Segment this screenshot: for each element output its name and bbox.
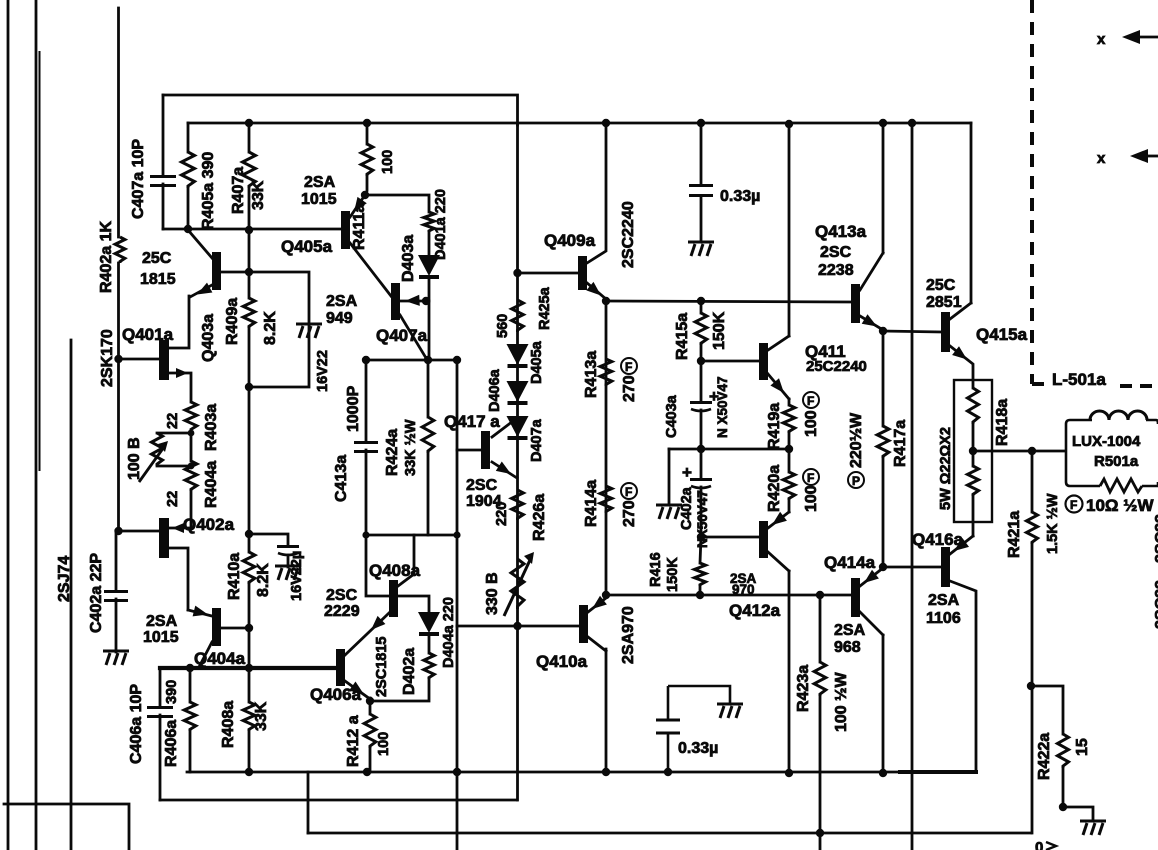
transistor Q405a bar	[341, 211, 350, 249]
wire R421a top	[1031, 451, 1034, 512]
svg-text:C413a: C413a	[333, 455, 350, 502]
svg-text:2SA: 2SA	[304, 174, 336, 191]
wire Q411 collector diag	[768, 336, 789, 350]
junction node (118.5,359)	[114, 355, 122, 363]
wire bias column R407a to R409a	[248, 188, 251, 298]
svg-text:R407a: R407a	[230, 167, 247, 214]
wire R404a to Q402a source	[169, 491, 191, 528]
emitter arrow Q409a	[586, 282, 601, 296]
transistor Q411 bar	[759, 343, 768, 380]
svg-text:2SA: 2SA	[834, 622, 866, 639]
wire 0.33u top cap stub	[700, 123, 703, 184]
wire Q410a collector diag	[588, 637, 606, 651]
wire D403a bottom to emitter node	[428, 278, 431, 360]
wire Q404a emitter diag	[188, 610, 212, 616]
svg-text:949: 949	[326, 310, 353, 327]
wire R405a bottom stub	[187, 188, 190, 229]
wire R420a bottom	[788, 500, 791, 512]
transistor Q402a bar	[159, 518, 169, 558]
resistor R416 150K	[694, 563, 705, 586]
wire left bus 2	[35, 0, 38, 850]
svg-text:Q408a: Q408a	[369, 561, 421, 580]
ground R422a	[1080, 821, 1106, 835]
wire Q412a base	[701, 536, 759, 539]
transistor Q406a bar	[336, 649, 345, 686]
wire C413a column top	[365, 360, 368, 441]
svg-text:22: 22	[165, 491, 181, 507]
wire R403a-R404a mid	[190, 431, 193, 461]
wire R423a column top	[819, 595, 822, 662]
resistor R421a 1.5K	[1026, 512, 1037, 544]
junction node (190,668)	[186, 664, 194, 672]
svg-text:R402a 1K: R402a 1K	[98, 221, 115, 293]
svg-text:R410a: R410a	[226, 553, 243, 600]
svg-text:Q410a: Q410a	[536, 652, 588, 671]
svg-text:2SC2240: 2SC2240	[620, 201, 637, 268]
svg-text:P: P	[852, 474, 860, 488]
resistor D404a 220	[424, 653, 434, 679]
junction node (701,123)	[697, 119, 705, 127]
transistor Q417a bar	[481, 431, 490, 469]
wire gnd bracket C403a	[669, 448, 701, 451]
svg-text:1815: 1815	[140, 271, 176, 288]
svg-text:D406a: D406a	[487, 368, 503, 412]
ground C403a bracket	[656, 505, 682, 519]
svg-text:Q403a: Q403a	[200, 314, 217, 362]
svg-text:2SA: 2SA	[326, 293, 358, 310]
wire C406a top stub	[159, 668, 162, 706]
emitter arrow Q417a	[496, 462, 511, 475]
wire bias column x=249 top	[248, 123, 251, 152]
svg-text:+: +	[682, 463, 692, 482]
svg-text:25C2240: 25C2240	[806, 358, 867, 375]
wire R418a bottom exit	[972, 496, 975, 536]
svg-text:2SA970: 2SA970	[620, 606, 637, 664]
svg-text:100: 100	[803, 485, 820, 512]
junction node (249,668)	[245, 664, 253, 672]
wire D404a to 220	[428, 635, 431, 653]
resistor R418a lower 0.22	[967, 466, 978, 496]
resistor R403a 22	[185, 402, 197, 431]
junction node (366,360)	[362, 356, 370, 364]
svg-text:F: F	[625, 360, 632, 374]
svg-text:R416: R416	[648, 552, 664, 587]
resistor D401a 220	[424, 212, 434, 232]
capacitor 16V22u	[277, 547, 299, 556]
wire Q415a emitter diag	[950, 346, 973, 388]
circled F R420a	[803, 469, 819, 485]
svg-text:L-501a: L-501a	[1052, 370, 1106, 389]
wire x883 top column	[882, 123, 885, 253]
svg-text:560: 560	[495, 314, 511, 338]
junction node (883,331)	[879, 327, 887, 335]
emitter arrow Q407a	[405, 295, 420, 306]
wire Q417a emitter diag	[492, 462, 517, 478]
junction node (517.5,273)	[513, 269, 521, 277]
wire 0.33u top cap to gnd	[700, 196, 703, 242]
svg-text:R405a 390: R405a 390	[200, 152, 217, 230]
svg-text:F: F	[625, 485, 632, 499]
svg-text:1106: 1106	[926, 610, 961, 627]
wire y332 line Q415a base	[883, 331, 941, 332]
diode D405a	[507, 344, 529, 366]
emitter arrow Q403a	[197, 283, 212, 295]
svg-text:C403a: C403a	[664, 394, 680, 438]
diode D406a	[507, 381, 529, 403]
svg-text:Q413a: Q413a	[815, 222, 867, 241]
svg-text:2SJ74: 2SJ74	[56, 556, 73, 602]
wire R418a mid node	[972, 424, 975, 466]
svg-text:Q405a: Q405a	[281, 237, 333, 256]
junction node (700,595)	[696, 591, 704, 599]
wire C406a bottom to y800 line	[159, 715, 162, 800]
wire Q410a emitter diag	[588, 598, 606, 612]
svg-text:F: F	[1070, 498, 1077, 512]
wire bottom bus y833	[308, 832, 1031, 835]
svg-text:2229: 2229	[324, 603, 360, 620]
resistor R415a 150K	[695, 313, 707, 345]
wire C402a input cap bottom	[115, 599, 118, 652]
svg-text:R406a: R406a	[163, 720, 180, 767]
svg-text:220½W: 220½W	[848, 412, 865, 468]
svg-text:C402a: C402a	[679, 486, 695, 530]
wire y360 line	[366, 359, 457, 362]
svg-text:0.33µ: 0.33µ	[720, 188, 760, 205]
wire Q414a emitter diag	[860, 568, 883, 586]
capacitor C403a electrolytic	[690, 403, 712, 412]
emitter arrow Q414a	[864, 570, 879, 583]
svg-text:R411a: R411a	[351, 204, 368, 250]
svg-text:NX50V47: NX50V47	[695, 490, 710, 548]
wire mid node to C402b	[700, 449, 703, 478]
junction node (701,449)	[697, 445, 705, 453]
junction node (457,535)	[453, 531, 460, 538]
svg-text:1000P: 1000P	[345, 385, 362, 432]
wire Q414a collector diag	[860, 612, 883, 635]
trimmer 100B zigzag	[151, 433, 162, 466]
svg-text:16V22µ: 16V22µ	[289, 551, 305, 601]
svg-text:Q402a: Q402a	[183, 515, 235, 534]
svg-text:R418a: R418a	[994, 399, 1011, 446]
emitter arrow Q412a	[772, 512, 787, 525]
wire Q406a emitter diag	[345, 681, 370, 699]
svg-text:Q407a: Q407a	[376, 326, 428, 345]
svg-text:2238: 2238	[818, 262, 854, 279]
resistor R420a 100F	[783, 472, 795, 500]
wire R422a bottom	[1062, 768, 1065, 807]
wire x606 mid column	[605, 301, 608, 595]
junction node (1032,451)	[1028, 447, 1036, 455]
svg-text:F: F	[807, 394, 814, 408]
wire bias column R409a to R410a	[248, 328, 251, 552]
wire x606 lower column	[605, 649, 608, 772]
wire C407a bottom stub	[162, 184, 165, 229]
wire x883 R417a column	[882, 330, 885, 426]
wire x457 branch to 518	[457, 625, 518, 628]
svg-text:1015: 1015	[301, 191, 337, 208]
transistor Q416a bar	[941, 547, 950, 587]
gate arrow Q402a	[172, 523, 184, 533]
wire x912 column	[911, 123, 914, 850]
wire y800 feedback line	[160, 799, 517, 802]
emitter arrow Q404a	[193, 606, 208, 617]
svg-text:R426a: R426a	[531, 494, 548, 541]
junction node (249,123)	[245, 119, 253, 127]
resistor R404a 22	[185, 461, 197, 491]
resistor R426a 220	[512, 490, 524, 520]
junction node (1063,807)	[1059, 803, 1067, 811]
svg-text:2SK170: 2SK170	[99, 329, 116, 387]
resistor R409a 8.2K	[243, 298, 255, 328]
wire input line R402a column top	[117, 8, 120, 237]
ground 0.33u top	[688, 242, 714, 256]
circled F R419a	[803, 392, 819, 408]
transistor Q403a bar	[212, 252, 221, 290]
arrow x second	[1130, 149, 1158, 163]
transistor Q409a bar	[578, 256, 587, 290]
wire bottom-left frame	[4, 804, 129, 850]
wire x517 main column	[516, 125, 519, 800]
svg-text:33K ½W: 33K ½W	[403, 419, 419, 476]
svg-text:33K: 33K	[253, 701, 270, 731]
svg-text:1015: 1015	[143, 629, 179, 646]
svg-text:2SC22: 2SC22	[1153, 580, 1158, 629]
svg-text:270: 270	[621, 375, 638, 402]
resistor R425a 560	[512, 300, 524, 332]
dashed boundary L-501a vertical	[1030, 0, 1034, 384]
wire x883 lower column	[882, 635, 885, 773]
resistor R419a 100F	[783, 405, 795, 433]
junction node (426,301)	[422, 297, 430, 305]
capacitor C407a	[150, 177, 176, 186]
svg-text:R404a: R404a	[203, 461, 220, 508]
wire x457 column lower	[456, 626, 459, 850]
wire Q403a collector diag	[188, 230, 212, 258]
transistor Q404a bar	[212, 608, 221, 646]
wire bias column R410a to node B	[248, 584, 251, 702]
svg-text:33K: 33K	[250, 180, 267, 210]
svg-text:R419a: R419a	[766, 403, 783, 450]
svg-text:150K: 150K	[711, 311, 728, 350]
resistor R501a zigzag	[1100, 479, 1142, 492]
junction node (370,701)	[366, 697, 374, 705]
wire trimmer stub bottom	[157, 465, 191, 468]
junction node (367,123)	[363, 119, 371, 127]
wire Q401a drain riser	[169, 296, 189, 348]
transistor Q413a bar	[851, 284, 860, 323]
circled F R414a	[621, 483, 637, 499]
svg-text:2851: 2851	[926, 294, 962, 311]
trimmer 100B arrow	[139, 447, 164, 482]
junction node (883,773)	[879, 769, 887, 777]
wire x971 column	[970, 123, 973, 303]
svg-text:2SC: 2SC	[326, 587, 358, 604]
wire Q402a drain riser	[169, 548, 188, 610]
svg-text:390: 390	[164, 680, 180, 704]
wire Q401a source to R403a	[169, 373, 191, 402]
transistor Q408a bar	[389, 580, 398, 617]
wire Q412a emitter diag	[768, 512, 789, 528]
wire gate Q401a	[119, 358, 160, 361]
resistor R402a 1K	[115, 237, 125, 263]
ground 16V22u	[275, 566, 301, 580]
junction node (249,230)	[245, 226, 253, 234]
svg-text:16V22: 16V22	[315, 350, 331, 392]
svg-text:LUX-1004: LUX-1004	[1072, 433, 1141, 450]
svg-text:R415a: R415a	[674, 313, 691, 360]
wire R416 top	[700, 537, 701, 563]
capacitor C413a	[354, 443, 378, 452]
wire Q408a emitter to Q406a collector	[345, 613, 389, 655]
terminal 0 bottom right	[1046, 842, 1056, 850]
svg-text:150K: 150K	[665, 557, 681, 592]
junction node (606,123)	[602, 119, 610, 127]
resistor R412a 100	[364, 714, 376, 748]
svg-text:15: 15	[1074, 738, 1091, 756]
junction node (1031,686)	[1027, 682, 1035, 690]
wire Q403a emitter diag	[190, 285, 212, 297]
wire Q407a collector diag	[400, 315, 426, 358]
svg-text:R423a: R423a	[795, 665, 812, 712]
junction node (366,535)	[362, 531, 369, 538]
wire R405a top stub	[187, 123, 190, 152]
svg-text:x: x	[1097, 150, 1106, 167]
junction node (249,387)	[245, 383, 253, 391]
junction node (820,833)	[816, 829, 824, 837]
wire Q404a base	[221, 627, 249, 630]
transistor Q407a bar	[391, 283, 400, 320]
trimmer 330B zigzag	[511, 559, 524, 609]
inductor LUX-1004 coil	[1090, 411, 1147, 420]
wire R421a bottom	[1031, 544, 1034, 686]
wire Q404a collector diag	[199, 642, 212, 667]
wire Q411 base	[701, 360, 759, 363]
resistor R422a 15	[1057, 734, 1068, 768]
capacitor C402a-2 electrolytic	[690, 480, 712, 489]
circled P R417a	[848, 472, 864, 488]
wire input line R402a column bottom	[117, 263, 120, 531]
wire bias column R408a to bottom bus	[248, 731, 251, 772]
svg-text:2SA: 2SA	[146, 613, 178, 630]
wire x457 column	[456, 360, 459, 626]
svg-text:Q412a: Q412a	[729, 601, 781, 620]
svg-text:8.2K: 8.2K	[255, 563, 272, 597]
svg-text:D402a: D402a	[401, 648, 418, 695]
svg-text:Q414a: Q414a	[824, 553, 876, 572]
emitter arrow Q416a	[954, 538, 969, 551]
svg-text:968: 968	[834, 639, 861, 656]
wire 0.33u bottom bracket	[668, 686, 730, 772]
svg-text:970: 970	[732, 582, 755, 597]
svg-text:R420a: R420a	[766, 465, 783, 512]
capacitor C402a	[104, 592, 128, 601]
label F10ohm	[1066, 496, 1155, 516]
wire Q409a base	[517, 272, 578, 275]
junction node (883,567)	[879, 563, 887, 571]
svg-text:2SC1815: 2SC1815	[374, 637, 390, 697]
wire y567 line Q416a base	[883, 566, 941, 569]
gate arrow Q401a	[176, 368, 188, 378]
ground C402a	[103, 651, 129, 665]
svg-text:R417a: R417a	[892, 420, 909, 467]
wire C402a input cap top	[115, 531, 118, 590]
svg-text:2SA: 2SA	[928, 592, 960, 609]
wire D403a mid	[428, 232, 431, 255]
junction node (367,772)	[363, 768, 371, 776]
svg-text:Q417 a: Q417 a	[444, 412, 500, 431]
diode D407a	[507, 416, 529, 438]
wire x789 top column	[788, 125, 791, 336]
wire R415a bottom	[700, 345, 703, 361]
wire C407a top stub	[162, 95, 165, 175]
capacitor C406a	[147, 708, 173, 717]
wire gate Q402a	[119, 530, 160, 533]
wire R411a bottom stub	[365, 176, 367, 195]
junction node (249,772)	[245, 768, 253, 776]
wire R411a top stub	[366, 123, 369, 144]
svg-text:22: 22	[165, 413, 181, 429]
junction node (365,195)	[361, 191, 369, 199]
svg-text:R403a: R403a	[203, 404, 220, 451]
wire C403a to mid node	[700, 410, 703, 449]
svg-text:220: 220	[494, 502, 510, 526]
junction node (249,534)	[245, 530, 253, 538]
svg-text:R413a: R413a	[583, 351, 600, 398]
junction node (517.5,626)	[513, 622, 521, 630]
resistor R407a 33K	[243, 152, 256, 188]
wire Q412a collector diag	[768, 552, 789, 571]
svg-text:100: 100	[380, 150, 396, 174]
junction node (973,451)	[969, 447, 977, 455]
junction node (191,433)	[188, 430, 195, 437]
svg-text:D404a 220: D404a 220	[441, 597, 457, 668]
wire Q407a emitter	[400, 300, 429, 303]
svg-text:C402a 22P: C402a 22P	[88, 553, 105, 633]
svg-text:100: 100	[376, 732, 392, 756]
wire R415a top	[700, 301, 703, 313]
junction node (701,537)	[697, 533, 705, 541]
svg-text:5W Ω22ΩX2: 5W Ω22ΩX2	[938, 427, 954, 510]
wire Q403a base	[221, 271, 249, 274]
wire R421a node to y833	[1031, 686, 1034, 833]
svg-text:100: 100	[803, 410, 820, 437]
svg-text:+: +	[709, 387, 719, 406]
resistor R413a 270F	[600, 359, 612, 386]
resistor R424a 33K	[422, 417, 434, 453]
wire left bus 2b	[39, 52, 41, 470]
junction node (457,772)	[453, 768, 461, 776]
ground 16V22 zener branch	[296, 324, 322, 338]
wire x789 lower column	[788, 571, 791, 773]
box LUX-1004 R501a	[1066, 420, 1158, 486]
wire y451 output line	[973, 450, 1064, 453]
wire y535 rail	[366, 534, 457, 537]
svg-text:D405a: D405a	[529, 340, 545, 384]
svg-text:R408a: R408a	[220, 701, 237, 748]
svg-text:8.2K: 8.2K	[262, 311, 279, 345]
svg-text:Q415a: Q415a	[976, 325, 1028, 344]
junction node (249,628)	[245, 624, 253, 632]
svg-text:Q401a: Q401a	[122, 325, 174, 344]
resistor R414a 270F	[600, 486, 612, 513]
wire left bus 1	[7, 0, 10, 850]
wire C413a column bottom to Q408a base	[366, 450, 389, 596]
wire Q416a collector diag	[950, 581, 976, 772]
wire R424a top stub	[427, 360, 430, 417]
svg-text:Q409a: Q409a	[544, 231, 596, 250]
wire 16V22u cap to ground	[287, 555, 290, 567]
svg-text:D401a 220: D401a 220	[433, 189, 449, 260]
